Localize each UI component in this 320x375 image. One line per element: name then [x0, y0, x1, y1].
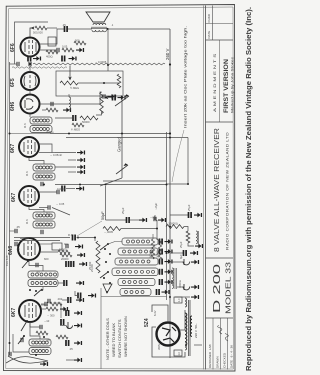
- tube 6K7 IF amplifier: [19, 137, 39, 157]
- capacitor big right: [61, 319, 64, 325]
- capacitor rf cathode: [40, 325, 42, 329]
- svg-text:6K7: 6K7: [10, 144, 16, 153]
- capacitor detector: [51, 102, 53, 106]
- resistor right side of box vertical: [117, 74, 121, 88]
- switch contacts band selector: [103, 243, 111, 293]
- svg-text:∼ 0.05: ∼ 0.05: [56, 202, 65, 206]
- trimmer row1: [160, 239, 163, 245]
- sheet border inner: [6, 7, 234, 369]
- wire 3: [60, 325, 66, 327]
- svg-text:½ MEG: ½ MEG: [70, 86, 79, 90]
- trimmer row2: [160, 249, 163, 255]
- electrolytic bold cap: [170, 252, 183, 254]
- capacitor left edge 2: [15, 242, 17, 246]
- switch triangle contact: [103, 284, 112, 293]
- signature scribbles: [218, 326, 223, 335]
- wire cathode row: [41, 303, 45, 305]
- resistor bleeder vertical: [186, 231, 190, 243]
- IF transformer T2 primary: [33, 164, 55, 171]
- wire volume top: [100, 92, 102, 104]
- wire 6A8 to osc coil: [29, 260, 43, 271]
- cap column 3 with curved plate: [67, 322, 73, 329]
- svg-text:.05: .05: [16, 247, 20, 251]
- ground bleeder: [195, 244, 203, 249]
- band coil row 3: [115, 258, 158, 265]
- tube 6F5 AF valve: [21, 72, 39, 90]
- junction dot box: [103, 82, 105, 84]
- ground row2: [165, 249, 173, 254]
- svg-text:6.3V: 6.3V: [153, 310, 157, 316]
- ground row4: [165, 269, 173, 274]
- capacitor screen bypass RF: [78, 293, 81, 299]
- heater winding top: [185, 298, 187, 307]
- wire B+ from transformer to 260V node: [107, 28, 170, 30]
- wire box bottom: [167, 183, 189, 185]
- bus line B lower pair: [103, 180, 167, 182]
- svg-text:∼10: ∼10: [44, 319, 50, 323]
- resistance line fine zigzag: [33, 63, 165, 65]
- ground rf screen: [60, 307, 68, 312]
- wire 6H6 diode load: [40, 103, 100, 105]
- wire bleeder bottom ground: [188, 243, 194, 246]
- trimmer row6: [157, 289, 160, 295]
- svg-text:BLU 6A8: BLU 6A8: [5, 255, 9, 266]
- svg-text:∼10000Ω: ∼10000Ω: [166, 222, 178, 226]
- wire RF to aerial coil: [30, 322, 40, 339]
- svg-text:WHERE NOT SHOWN: WHERE NOT SHOWN: [123, 316, 128, 357]
- junction dot bus: [79, 184, 81, 186]
- resistor tone: [62, 48, 74, 52]
- wire cap column: [62, 299, 68, 301]
- title strip left border: [205, 6, 207, 370]
- band coil row 1: [122, 238, 158, 245]
- ground screen bypass RF: [88, 293, 96, 298]
- capacitor between T1: [41, 230, 43, 234]
- oscillator coil secondary: [28, 280, 58, 287]
- junction dots aerial: [35, 354, 37, 356]
- choke coil field vertical: [196, 231, 199, 244]
- svg-text:R.6: R.6: [25, 219, 29, 224]
- tube 6K7 second IF: [19, 186, 39, 206]
- ground tone: [76, 48, 84, 53]
- wire 6K7 plate right: [39, 144, 52, 153]
- RF screen resistor: [46, 307, 58, 311]
- resistor wavy 0005: [103, 227, 121, 231]
- wire top-left corner drop: [15, 22, 49, 64]
- capacitor 6K7b: [57, 190, 59, 194]
- svg-text:.002: .002: [57, 297, 63, 301]
- capacitor bottom left bank: [64, 280, 67, 286]
- divider resistor A vertical: [151, 239, 154, 259]
- switch dot: [27, 260, 29, 262]
- svg-text:DATE 6 - 4 - 36: DATE 6 - 4 - 36: [230, 345, 234, 368]
- svg-text:WIRED TO BLANK: WIRED TO BLANK: [111, 323, 116, 357]
- junction dots box: [187, 183, 189, 185]
- wire left edge 6F5: [10, 63, 18, 65]
- svg-text:CHKD: CHKD: [207, 13, 211, 22]
- amendments box: [219, 40, 221, 122]
- electrolytic U cap 1: [183, 259, 190, 265]
- cathode bypass capacitor: [28, 56, 31, 62]
- svg-text:8μF: 8μF: [179, 254, 183, 259]
- resistor detector load: [46, 108, 58, 112]
- capacitor right with ground: [154, 215, 156, 220]
- ground 2: [74, 311, 82, 316]
- svg-text:DRAWN: DRAWN: [216, 356, 220, 368]
- wire osc coil bottom: [42, 287, 43, 290]
- wire 6H6 to T3: [29, 114, 31, 118]
- wire cap big right link: [53, 303, 61, 318]
- svg-text:D 200: D 200: [212, 263, 223, 313]
- RF stage screen cap: [48, 299, 50, 303]
- ground osc caps: [79, 262, 87, 267]
- output transformer secondary: [92, 30, 106, 32]
- wire RF plate right: [41, 304, 48, 306]
- wire res cap: [55, 117, 73, 119]
- wire left column couplers: [55, 152, 76, 154]
- ground U cap 2: [191, 285, 199, 290]
- svg-text:Insert 20k as Osc Plate voltag: Insert 20k as Osc Plate voltage too high…: [183, 26, 188, 128]
- leader 50uF: [77, 221, 102, 236]
- ground 3: [74, 323, 82, 328]
- diagonal wire gang to bus: [100, 178, 122, 186]
- svg-text:∼μF: ∼μF: [150, 215, 156, 219]
- WATERMARK: [244, 7, 253, 371]
- B+ rail vertical: [169, 29, 171, 358]
- resistor above tone box: [74, 41, 86, 45]
- ground detector: [63, 108, 71, 113]
- svg-text:500: 500: [75, 39, 80, 43]
- svg-text:0.1: 0.1: [46, 211, 50, 215]
- screen resistor box R6: [48, 37, 56, 46]
- capacitor 6F5 left: [17, 62, 19, 66]
- svg-text:6K7: 6K7: [11, 193, 17, 202]
- wire second: [55, 166, 76, 168]
- svg-text:∼ 0.05mF: ∼ 0.05mF: [50, 153, 62, 157]
- capacitor 25uF bold: [127, 217, 130, 223]
- grid wire with wiper arrow into 6F6: [30, 28, 33, 37]
- wire bottom left: [58, 282, 64, 284]
- wire 10000 to node: [184, 227, 188, 232]
- pilot box 2: [174, 350, 182, 356]
- wire 6K7b plate: [39, 207, 48, 209]
- wire rect right top: [179, 310, 185, 330]
- antenna lead crossed wires: [6, 356, 48, 363]
- svg-text:.01: .01: [36, 270, 40, 274]
- tube 6K7 RF amplifier: [19, 300, 41, 322]
- heater winding bottom: [185, 344, 187, 350]
- IF transformer T3 primary: [30, 117, 52, 124]
- capacitor bold pair osc: [66, 261, 69, 267]
- svg-text:¼ MEG: ¼ MEG: [71, 128, 80, 132]
- filter cap psu top: [170, 214, 188, 216]
- svg-text:NOTE - OTHER COILS: NOTE - OTHER COILS: [105, 318, 110, 360]
- node 260V junction: [169, 63, 171, 65]
- ground electrolytic: [190, 251, 198, 256]
- ground row1: [165, 239, 173, 244]
- leader line annotation: [172, 130, 184, 182]
- oscillator coil primary: [28, 271, 58, 278]
- resistor grid 500000: [35, 26, 47, 30]
- svg-text:260 V: 260 V: [165, 48, 170, 60]
- svg-text:500,000: 500,000: [33, 31, 43, 35]
- tuning capacitor arrow: [115, 96, 129, 106]
- wire 6K7 to T2: [29, 157, 44, 164]
- svg-text:600: 600: [44, 257, 49, 261]
- svg-text:6K7: 6K7: [11, 308, 17, 317]
- potentiometer arrow: [69, 66, 71, 78]
- wire rows left links: [108, 242, 122, 245]
- svg-text:6F5: 6F5: [10, 78, 16, 87]
- ground psu bottom: [191, 295, 199, 300]
- resistor small left: [56, 335, 68, 339]
- choke vertical coil 6H6 load: [69, 97, 71, 110]
- svg-text:MODEL 33: MODEL 33: [224, 262, 233, 314]
- switch lever osc band: [34, 289, 42, 296]
- svg-text:25μF: 25μF: [187, 204, 191, 211]
- resistor top of volume network: [80, 116, 98, 120]
- screen bypass capacitor bold: [62, 56, 65, 62]
- wire 6A8 right pins: [40, 243, 52, 245]
- wire psu bottom right: [175, 296, 190, 298]
- pilot box 1: [174, 297, 182, 303]
- svg-text:AMENDMENTS: AMENDMENTS: [212, 52, 217, 112]
- wire screen bypass: [75, 291, 78, 296]
- resistor osc 50000: [58, 250, 70, 254]
- svg-text:350V: 350V: [157, 344, 161, 350]
- ground screen bypass: [69, 56, 77, 61]
- volume control resistor: [100, 92, 104, 114]
- ground antenna: [40, 362, 48, 367]
- capacitor left edge 1: [15, 229, 17, 233]
- wire to filter cap: [106, 219, 127, 221]
- svg-text:1.0: 1.0: [178, 351, 181, 355]
- svg-text:25μF: 25μF: [121, 207, 125, 214]
- wire resistor right: [121, 228, 157, 230]
- svg-text:∼ 0.0005: ∼ 0.0005: [95, 60, 107, 64]
- svg-text:DESIGNED LAB: DESIGNED LAB: [208, 344, 212, 368]
- svg-text:0.0001: 0.0001: [57, 187, 66, 191]
- power transformer HT winding: [185, 313, 187, 345]
- svg-text:Ganged: Ganged: [117, 136, 122, 152]
- capacitor after 6K7 second: [48, 205, 50, 209]
- transformer core lines: [189, 300, 191, 356]
- svg-text:CHECKED: CHECKED: [223, 352, 227, 368]
- grid cap 6F5 coupling: [29, 62, 31, 66]
- designed/drawn/checked/date table: [212, 318, 214, 370]
- wiper arrow volume: [104, 96, 109, 100]
- wire edge caps: [10, 230, 16, 232]
- svg-text:230 V 50~: 230 V 50~: [194, 323, 198, 338]
- resistor cathode row RF: [50, 302, 62, 306]
- ground right cap: [158, 218, 166, 223]
- ground mid left 2: [77, 165, 85, 170]
- capacitor plate bypass: [65, 26, 68, 32]
- wire 6F6 plate to output transformer: [39, 29, 64, 44]
- bus line AVC upper: [50, 133, 170, 135]
- ground IF bypass: [76, 186, 84, 191]
- CHK/DATE table: [212, 6, 214, 41]
- wire mains to border: [194, 344, 202, 346]
- svg-text:6H6: 6H6: [10, 102, 16, 111]
- wire to transformer: [68, 28, 92, 30]
- gang line vertical: [121, 99, 123, 178]
- svg-text:50μF: 50μF: [101, 211, 105, 220]
- wire lone: [66, 359, 74, 361]
- ground row6: [162, 290, 170, 295]
- wire grid cap 6A8 top: [20, 238, 29, 240]
- electrolytic U cap 2: [183, 284, 190, 290]
- capacitor padder: [73, 235, 76, 241]
- wire det load: [42, 109, 46, 111]
- wire 6K7 screen: [39, 152, 55, 154]
- wire cap ground: [130, 219, 139, 221]
- svg-text:RADIO CORPORATION OF NEW ZEALA: RADIO CORPORATION OF NEW ZEALAND LTD: [226, 132, 230, 250]
- power transformer primary winding: [190, 316, 192, 336]
- ground 4: [74, 341, 82, 346]
- svg-text:.05: .05: [46, 338, 50, 342]
- ground mica: [75, 244, 83, 249]
- capacitor antenna left edge: [9, 352, 11, 356]
- bus line heater: [66, 137, 188, 139]
- ground bottom left: [76, 281, 84, 286]
- receiver title box: [206, 257, 234, 259]
- wire tone network: [39, 49, 57, 51]
- svg-text:1.0: 1.0: [178, 298, 181, 302]
- band coil row 5: [118, 279, 155, 286]
- wire transformer tap down to tone box: [107, 29, 109, 71]
- svg-text:FIRST VERSION: FIRST VERSION: [224, 59, 230, 113]
- wire rect loop: [152, 327, 185, 357]
- tuning capacitor arrow lower: [116, 165, 128, 174]
- diagonal wire to PSU: [52, 208, 70, 216]
- wire rect top: [152, 305, 168, 322]
- wire aerial coil links: [13, 334, 29, 352]
- wire wiper to AVC cap: [107, 97, 112, 99]
- junction dot: [106, 28, 108, 30]
- cap column 4: [66, 340, 69, 346]
- wire avc to 6K7: [10, 133, 51, 135]
- vertical link coil bank: [156, 220, 158, 240]
- wire cathode: [29, 57, 31, 59]
- wire grid resistor to coupling cap: [47, 27, 57, 29]
- wire 6K7b plate right: [39, 191, 57, 193]
- capacitor AVC: [113, 95, 116, 101]
- switch lever rf input: [21, 321, 27, 331]
- wire divider tops: [152, 234, 154, 239]
- resistor half meg 2: [72, 123, 84, 127]
- resistor rf cathode: [36, 331, 48, 335]
- svg-text:∼8μF: ∼8μF: [154, 202, 158, 210]
- IF transformer T1 secondary: [33, 221, 55, 228]
- svg-text:SWITCH CONTACTS: SWITCH CONTACTS: [117, 319, 122, 358]
- loudspeaker horn: [86, 12, 110, 22]
- bus line B lower second: [55, 184, 167, 186]
- wire rf cathode: [30, 322, 40, 327]
- svg-text:DATE: DATE: [207, 31, 211, 39]
- ground mid left: [77, 150, 85, 155]
- ground tone box bottom: [108, 94, 116, 99]
- svg-text:50000: 50000: [149, 250, 153, 258]
- aerial coil secondary: [29, 348, 51, 355]
- wire choke ends: [68, 94, 70, 97]
- tone control box: [56, 71, 123, 96]
- svg-text:20000: 20000: [61, 257, 69, 261]
- junction dot rail: [169, 132, 171, 134]
- capacitor cathode row RF: [45, 302, 47, 306]
- svg-text:6A8: 6A8: [8, 246, 14, 255]
- svg-text:.25: .25: [62, 23, 66, 27]
- caps column above note: [68, 297, 71, 303]
- resistor 10000 ohm: [166, 225, 184, 229]
- wire bottom bus: [101, 296, 167, 298]
- svg-text:0.1: 0.1: [64, 242, 68, 246]
- switch lever band 2: [100, 272, 108, 278]
- svg-text:∼ 300: ∼ 300: [47, 314, 55, 318]
- note area border: [100, 288, 102, 369]
- switch contacts below osc coil: [29, 289, 43, 292]
- capacitor IF bypass: [62, 186, 65, 192]
- svg-text:0.05: 0.05: [62, 45, 68, 49]
- ground psu top: [194, 213, 202, 218]
- switch lever band 1: [100, 244, 108, 250]
- junction padder: [77, 237, 79, 239]
- wire inside box: [78, 82, 119, 84]
- wire 6F5 to 6H6: [29, 90, 31, 95]
- capacitor mica left: [66, 244, 68, 248]
- ground row3: [165, 259, 173, 264]
- volume bottom to ground: [96, 112, 102, 116]
- IF transformer T2 secondary: [33, 173, 55, 180]
- junction dots on buses: [9, 63, 172, 344]
- svg-text:50000: 50000: [82, 120, 90, 124]
- resistor tone pot horizontal: [60, 81, 78, 85]
- wire 6K7b to T1: [29, 206, 44, 212]
- arrowhead wiper: [31, 26, 35, 29]
- wire rf screen: [41, 308, 46, 310]
- svg-text:25μF: 25μF: [179, 241, 183, 248]
- tone capacitor 6F6 plate: [57, 48, 59, 52]
- filter choke vertical box: [172, 268, 177, 289]
- band coil row 6: [120, 289, 151, 296]
- divider resistor B vertical: [158, 239, 161, 259]
- wire 6F5 grid: [29, 66, 31, 72]
- capacitor osc grid: [36, 263, 38, 267]
- ground U cap 1: [191, 260, 199, 265]
- svg-text:25,000: 25,000: [88, 261, 92, 270]
- svg-text:R.6: R.6: [23, 123, 27, 128]
- wire padder to coil bank: [77, 238, 96, 242]
- svg-text:6F6: 6F6: [10, 43, 16, 52]
- ground padder: [77, 253, 85, 258]
- svg-text:.05: .05: [16, 225, 20, 229]
- svg-text:5Z4: 5Z4: [144, 318, 150, 327]
- resistor padder lower: [60, 253, 72, 257]
- antenna switch lever: [18, 336, 24, 344]
- cap column 2: [66, 310, 69, 316]
- svg-text:R.6: R.6: [25, 171, 29, 176]
- ground 25uF: [139, 218, 147, 223]
- arrows variable cap markers: [68, 159, 76, 161]
- capacitor between T2: [41, 182, 43, 186]
- IF transformer T1 primary: [33, 212, 55, 219]
- switch lever osc grid: [22, 261, 28, 268]
- ground lone bottom: [74, 358, 82, 363]
- left AVC bus vertical: [9, 62, 11, 355]
- wire osc resistor: [40, 251, 58, 253]
- trimmer row4: [160, 269, 163, 275]
- D200 model box: [206, 317, 234, 319]
